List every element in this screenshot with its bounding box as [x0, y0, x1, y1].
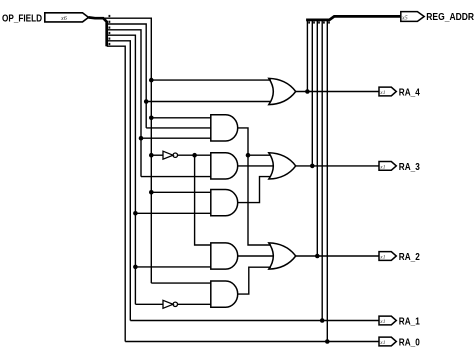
bus wire from merger to REG_ADDR	[306, 16, 401, 20]
wire branch bit2 to net L3	[107, 35, 136, 304]
node junction U7.out/line3	[315, 254, 320, 259]
svg-text:REG_ADDR: REG_ADDR	[426, 12, 474, 23]
svg-text:x1: x1	[379, 319, 385, 325]
node junction L6/U4.in	[149, 153, 154, 158]
and-gate U5	[211, 153, 238, 179]
svg-text:x5: x5	[401, 15, 408, 21]
wire U4 output to AND U5 input 1	[178, 154, 211, 156]
and-gate U6	[211, 243, 238, 269]
node junction U4.out branch	[192, 153, 197, 158]
wire L5 tap to OR U1 input 2	[146, 101, 271, 103]
wire U4.out branch down to AND U6 input 1	[195, 155, 211, 245]
output port tag RA_3	[379, 162, 396, 171]
wire output line bit3 up to merger	[311, 20, 313, 166]
wire branch bit5 to net L6	[103, 18, 151, 283]
node junction RA_1/line4	[320, 318, 325, 323]
output port tag RA_4	[379, 87, 396, 96]
or-gate U1 (RA_4)	[269, 78, 296, 104]
wire U8 output up to OR U3 input 3	[238, 177, 271, 203]
wire U2.out tap to OR U3 input 1	[248, 154, 271, 156]
wire branch bit4 to net L5	[107, 24, 147, 128]
wire L6 end to AND U9 input 1	[151, 282, 211, 284]
splitter bit label 4	[109, 21, 111, 23]
wire output line bit0 up to merger	[326, 20, 328, 341]
and-gate U9	[211, 281, 238, 307]
node junction RA_0/line5	[325, 339, 330, 344]
wire L6 tap to OR U1 input 1	[151, 79, 271, 81]
node junction U3.out/line2	[310, 164, 315, 169]
node junction U2.out/U3.in1	[246, 153, 251, 158]
splitter bit label 1	[109, 38, 111, 40]
wire L3 tap to AND U8 input 2	[135, 212, 210, 214]
wire net RA_0 from L1 to tag	[125, 341, 379, 343]
wire L4 tap to AND U2 input 3	[141, 137, 211, 139]
wire U5 output to OR U3 input 2	[238, 165, 274, 167]
svg-text:RA_1: RA_1	[399, 317, 420, 328]
splitter bit label 3	[109, 27, 111, 29]
inverter U4	[163, 151, 178, 159]
wire branch bit0 to net L1	[107, 46, 126, 341]
svg-text:x1: x1	[379, 255, 385, 261]
wire output line bit4 up to merger	[306, 20, 308, 91]
wire L6 tap to AND U8 input 1	[151, 191, 211, 193]
wire branch bit3 to net L4	[107, 30, 141, 177]
wire U6 output to OR U7 input 2	[238, 255, 274, 257]
wire L6 tap to AND U2 input 1	[151, 117, 211, 119]
wire output line bit1 up to merger	[321, 20, 323, 320]
wire net RA_1 from L2 to tag	[130, 320, 379, 322]
node junction L3/U8.in2	[133, 211, 138, 216]
merger bit label 4	[308, 21, 310, 23]
merger bit label 1	[323, 21, 325, 23]
wire U2 output down to OR U3 and OR U7	[238, 128, 271, 245]
wire L3 tap to AND U6 input 2	[135, 266, 210, 268]
wire L5 end to AND U2 input 2	[146, 127, 211, 129]
or-gate U3 (RA_3)	[269, 153, 296, 179]
output port tag RA_0	[379, 337, 396, 346]
input port tag OP_FIELD	[45, 13, 89, 22]
output port tag RA_1	[379, 316, 396, 325]
splitter bit label 5	[109, 15, 111, 17]
node junction L6/U8.in1	[149, 190, 154, 195]
inverter U10	[163, 300, 178, 308]
wire branch bit1 to net L2	[107, 41, 131, 321]
bus wire from OP_FIELD to splitter	[89, 17, 107, 46]
svg-text:x1: x1	[379, 90, 385, 96]
output port tag RA_2	[379, 252, 396, 261]
svg-text:x6: x6	[60, 15, 68, 22]
wire U9 output up to OR U7 input 3	[238, 267, 271, 294]
svg-text:RA_3: RA_3	[399, 162, 420, 173]
svg-text:RA_4: RA_4	[399, 88, 420, 99]
wire U10 output to AND U9 input 2	[178, 303, 211, 305]
node junction U1.out/line1	[305, 89, 310, 94]
node junction L3/U6.in2	[133, 265, 138, 270]
wire output line bit2 up to merger	[316, 20, 318, 256]
node junction L5/U1.in2	[144, 99, 149, 104]
merger bit label 2	[318, 21, 320, 23]
node junction L4/U2.in3	[139, 136, 144, 141]
output port tag REG_ADDR	[401, 12, 424, 22]
wire U3 output to RA_3 tag	[296, 165, 379, 167]
splitter bit label 2	[109, 32, 111, 34]
splitter bit label 0	[109, 43, 111, 45]
wire U7 output to RA_2 tag	[296, 255, 379, 257]
wire U1 output to RA_4 tag	[296, 91, 379, 93]
and-gate U2	[211, 115, 238, 141]
merger bit label 0	[328, 21, 330, 23]
or-gate U7 (RA_2)	[269, 243, 296, 269]
svg-text:RA_0: RA_0	[399, 338, 420, 349]
wire L6 tap to inverter U4 input	[151, 154, 163, 156]
merger bit label 3	[313, 21, 315, 23]
svg-text:x1: x1	[379, 165, 385, 171]
and-gate U8	[211, 190, 238, 216]
svg-text:x1: x1	[379, 340, 385, 346]
node junction L6/U1.in1	[149, 78, 154, 83]
wire L4 end to AND U5 input 2	[141, 176, 211, 178]
svg-text:RA_2: RA_2	[399, 252, 420, 263]
svg-text:OP_FIELD: OP_FIELD	[2, 13, 42, 24]
wire L3 end to inverter U10 input	[135, 303, 163, 305]
node junction L6/U2.in1	[149, 116, 154, 121]
